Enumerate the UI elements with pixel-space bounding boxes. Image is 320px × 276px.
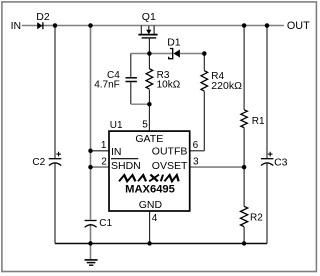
wire IN pin1 horizontal [91, 150, 110, 152]
svg-text:Q1: Q1 [142, 11, 156, 23]
svg-text:1: 1 [101, 140, 107, 151]
svg-text:IN: IN [11, 20, 22, 32]
wire SHDN pin2 horizontal [91, 166, 110, 168]
wire Q1 gate drop [148, 38, 150, 54]
wire left branch vertical x90 [90, 26, 92, 244]
svg-text:4: 4 [152, 213, 158, 224]
svg-text:IN: IN [111, 146, 122, 158]
svg-text:R2: R2 [250, 213, 263, 224]
svg-text:4.7nF: 4.7nF [94, 80, 120, 91]
wire C2 branch vertical [54, 26, 56, 244]
svg-text:OUTFB: OUTFB [152, 146, 188, 158]
svg-text:D2: D2 [36, 11, 50, 23]
wire GND pin4 vertical [149, 211, 151, 244]
diode D2 [37, 22, 43, 29]
resistor R4 [201, 54, 208, 151]
svg-text:MAX6495: MAX6495 [125, 184, 175, 196]
capacitor C4 [126, 78, 137, 82]
MAXIM logo [119, 175, 180, 182]
svg-text:OUT: OUT [287, 20, 310, 32]
svg-text:3: 3 [193, 156, 199, 167]
svg-text:6: 6 [193, 140, 199, 151]
resistor R3 label [157, 70, 181, 91]
svg-text:SHDN: SHDN [111, 160, 141, 172]
wire OVSET pin3 horizontal [190, 166, 244, 168]
svg-text:U1: U1 [110, 120, 123, 131]
svg-text:5: 5 [142, 119, 148, 130]
svg-text:OVSET: OVSET [152, 160, 188, 172]
pin name SHDN with overline [111, 159, 141, 172]
wire C3 branch vertical [266, 26, 268, 244]
wire OUTFB pin6 horizontal [190, 150, 205, 152]
capacitor C4 branch wires [131, 54, 150, 105]
svg-text:2: 2 [101, 156, 107, 167]
wire top rail [22, 25, 284, 27]
svg-text:D1: D1 [167, 37, 181, 49]
resistor R3 [146, 54, 153, 105]
ground [85, 243, 98, 265]
svg-text:GND: GND [139, 199, 163, 211]
capacitor C2 [49, 152, 62, 166]
transistor Q1 [138, 26, 157, 38]
svg-text:R1: R1 [252, 116, 265, 127]
svg-text:C1: C1 [99, 218, 112, 229]
svg-text:220kΩ: 220kΩ [211, 80, 242, 92]
capacitor C4 label [94, 70, 120, 91]
capacitor C1 [85, 221, 97, 228]
resistor R2 [241, 206, 248, 226]
svg-text:C3: C3 [274, 157, 288, 169]
resistor R4 label [211, 71, 242, 92]
svg-text:GATE: GATE [135, 133, 163, 145]
diode D1 zener [169, 49, 180, 59]
IC U1 box [109, 131, 190, 211]
svg-text:C2: C2 [32, 157, 45, 168]
wire gate node horizontals [131, 53, 205, 55]
wire GATE pin5 vertical [148, 104, 150, 131]
resistor R1 [241, 110, 247, 128]
svg-text:10kΩ: 10kΩ [157, 79, 181, 90]
wire bottom rail [55, 243, 267, 245]
wire R1 branch vertical [243, 26, 245, 244]
capacitor C3 [261, 152, 274, 166]
